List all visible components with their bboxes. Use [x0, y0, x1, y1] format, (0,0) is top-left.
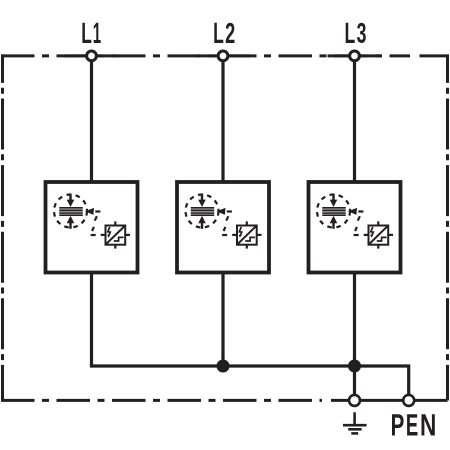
trigger device T2: box with diagonal	[237, 226, 257, 245]
junction dot on bus under L2	[217, 360, 230, 373]
spark gap F2: top electrode arrow (down)	[198, 194, 206, 207]
spark gap F1: dashed envelope circle	[54, 195, 87, 228]
trigger device T1: lightning bolt	[107, 227, 110, 238]
wire: L3 terminal to module 3	[353, 60, 356, 183]
SPD module 3 internals group	[317, 194, 393, 249]
trigger device T3: stub leads	[364, 221, 393, 248]
dashed trigger link wire, module 3	[354, 212, 364, 236]
SPD module 3 outline box	[309, 182, 401, 273]
device enclosure dash-dot border	[1, 54, 448, 400]
terminal circle earth	[349, 395, 360, 406]
terminal circle L1	[87, 51, 97, 61]
terminal circle L3	[350, 51, 360, 61]
wire: module 3 down to common bus	[353, 272, 356, 366]
dashed trigger link wire, module 2	[222, 212, 232, 236]
trigger device T1: surge step wave mark	[114, 237, 124, 241]
junction dot on bus under L3	[348, 360, 361, 373]
dashed trigger link wire, module 1	[91, 212, 101, 236]
wire: module 1 down to common bus	[90, 272, 93, 366]
trigger device T2: lightning bolt	[239, 227, 242, 238]
label L3	[346, 23, 366, 43]
spark gap F3: bottom electrode arrow (up)	[330, 216, 338, 229]
label L1	[82, 23, 100, 43]
solid border stubs at L1,L2,L3 terminals	[65, 56, 448, 401]
earth / ground symbol	[343, 412, 367, 433]
terminal circle PEN	[403, 395, 414, 406]
spark gap F2: electrode plate stack	[191, 207, 214, 216]
wire: L1 terminal to module 1	[90, 60, 93, 183]
trigger device T1: stub leads	[101, 221, 130, 248]
spark gap F1: top electrode arrow (down)	[67, 194, 75, 207]
SPD module 1 internals group	[54, 194, 130, 249]
trigger arrow into spark gap F3	[348, 208, 357, 215]
trigger device T3: box with diagonal	[369, 226, 389, 245]
spark gap F3: dashed envelope circle	[317, 195, 350, 228]
wire: module 2 down to common bus	[221, 272, 224, 366]
SPD module 2 outline box	[177, 182, 269, 273]
trigger arrow into spark gap F2	[217, 208, 226, 215]
spark gap F3: electrode plate stack	[322, 207, 345, 216]
trigger device T3: lightning bolt	[370, 227, 373, 238]
trigger device T2: surge step wave mark	[245, 237, 255, 241]
spark gap F1: bottom electrode arrow (up)	[67, 216, 75, 229]
label PEN	[392, 414, 435, 435]
trigger arrow into spark gap F1	[85, 208, 94, 215]
trigger device T1: box with diagonal	[106, 226, 126, 245]
spark gap F1: electrode plate stack	[59, 207, 82, 216]
trigger device T2: stub leads	[232, 221, 261, 248]
spark gap F2: bottom electrode arrow (up)	[198, 216, 206, 229]
wire: bus down to earth terminal	[353, 366, 356, 398]
SPD module 1 outline box	[46, 182, 138, 273]
spark gap F2: dashed envelope circle	[186, 195, 219, 228]
wire: L2 terminal to module 2	[221, 60, 224, 183]
SPD module 2 internals group	[186, 194, 262, 249]
wire: common bus	[92, 364, 409, 398]
spark gap F3: top electrode arrow (down)	[330, 194, 338, 207]
terminal circle L2	[218, 51, 228, 61]
trigger device T3: surge step wave mark	[377, 237, 387, 241]
label L2	[214, 23, 234, 43]
